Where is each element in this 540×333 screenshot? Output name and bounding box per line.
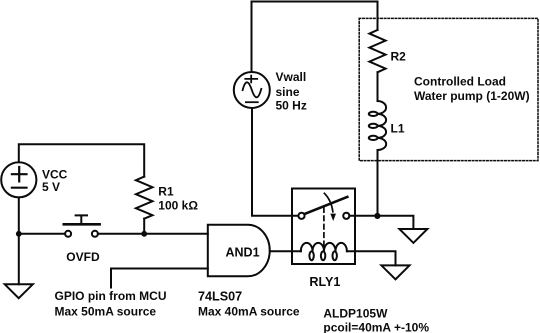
- svg-text:R2: R2: [391, 50, 407, 64]
- relay contact left: [298, 213, 304, 219]
- svg-text:sine: sine: [276, 85, 300, 99]
- svg-text:Max 50mA source: Max 50mA source: [55, 305, 157, 319]
- relay switch blade: [304, 197, 347, 214]
- controlled load dashed box: [359, 18, 538, 160]
- wire VCC top loop: [19, 144, 144, 176]
- wire AC source to relay common: [252, 108, 298, 216]
- relay contact right: [343, 213, 349, 219]
- svg-text:Vwall: Vwall: [276, 70, 307, 84]
- op-amp AND1 gate body: [208, 225, 270, 277]
- wire AND output to relay coil: [270, 250, 301, 252]
- wire mains top loop: [252, 2, 378, 73]
- inductor L1: [369, 101, 386, 150]
- svg-text:Controlled Load: Controlled Load: [414, 75, 506, 89]
- wire relay coil to ground B: [347, 251, 396, 265]
- relay actuation dashed link: [323, 208, 325, 248]
- relay coil: [301, 243, 347, 260]
- wire GPIO stub to AND input B: [111, 269, 208, 288]
- wire R2 to L1: [377, 72, 379, 101]
- svg-text:pcoil=40mA +-10%: pcoil=40mA +-10%: [323, 320, 429, 333]
- svg-text:OVFD: OVFD: [66, 250, 100, 264]
- wire relay common to ground A: [349, 216, 413, 229]
- svg-text:L1: L1: [391, 122, 405, 136]
- wire R1 to rail: [143, 219, 145, 234]
- pushbutton OVFD: [64, 215, 100, 236]
- wire to ground left: [18, 234, 20, 284]
- resistor R2: [369, 30, 385, 72]
- ground B: [381, 265, 409, 279]
- svg-text:Max 40mA source: Max 40mA source: [198, 305, 300, 319]
- svg-text:ALDP105W: ALDP105W: [323, 306, 388, 320]
- svg-text:AND1: AND1: [226, 246, 260, 260]
- svg-text:5 V: 5 V: [42, 180, 60, 194]
- relay RLY1 box: [292, 189, 355, 265]
- wire VCC to rail: [18, 197, 20, 233]
- wire L1 to relay switch node: [377, 150, 379, 216]
- wire rail left: [19, 233, 65, 235]
- relay actuation arrow: [324, 193, 336, 221]
- svg-text:74LS07: 74LS07: [198, 289, 242, 303]
- ground: [5, 284, 33, 298]
- resistor R1: [136, 177, 153, 219]
- wire rail right to AND input A: [98, 233, 208, 235]
- junction rail/VCC: [16, 231, 22, 237]
- svg-text:GPIO pin from MCU: GPIO pin from MCU: [55, 289, 167, 303]
- AC source Vwall: [234, 72, 270, 108]
- junction load/relay: [374, 213, 380, 219]
- svg-text:50 Hz: 50 Hz: [276, 98, 307, 112]
- svg-text:100 kΩ: 100 kΩ: [158, 199, 198, 213]
- svg-text:RLY1: RLY1: [309, 275, 340, 289]
- svg-text:R1: R1: [158, 185, 174, 199]
- ground A: [399, 229, 427, 243]
- junction rail/R1: [141, 231, 147, 237]
- voltage source VCC: [1, 162, 36, 197]
- svg-text:Water pump (1-20W): Water pump (1-20W): [414, 89, 530, 103]
